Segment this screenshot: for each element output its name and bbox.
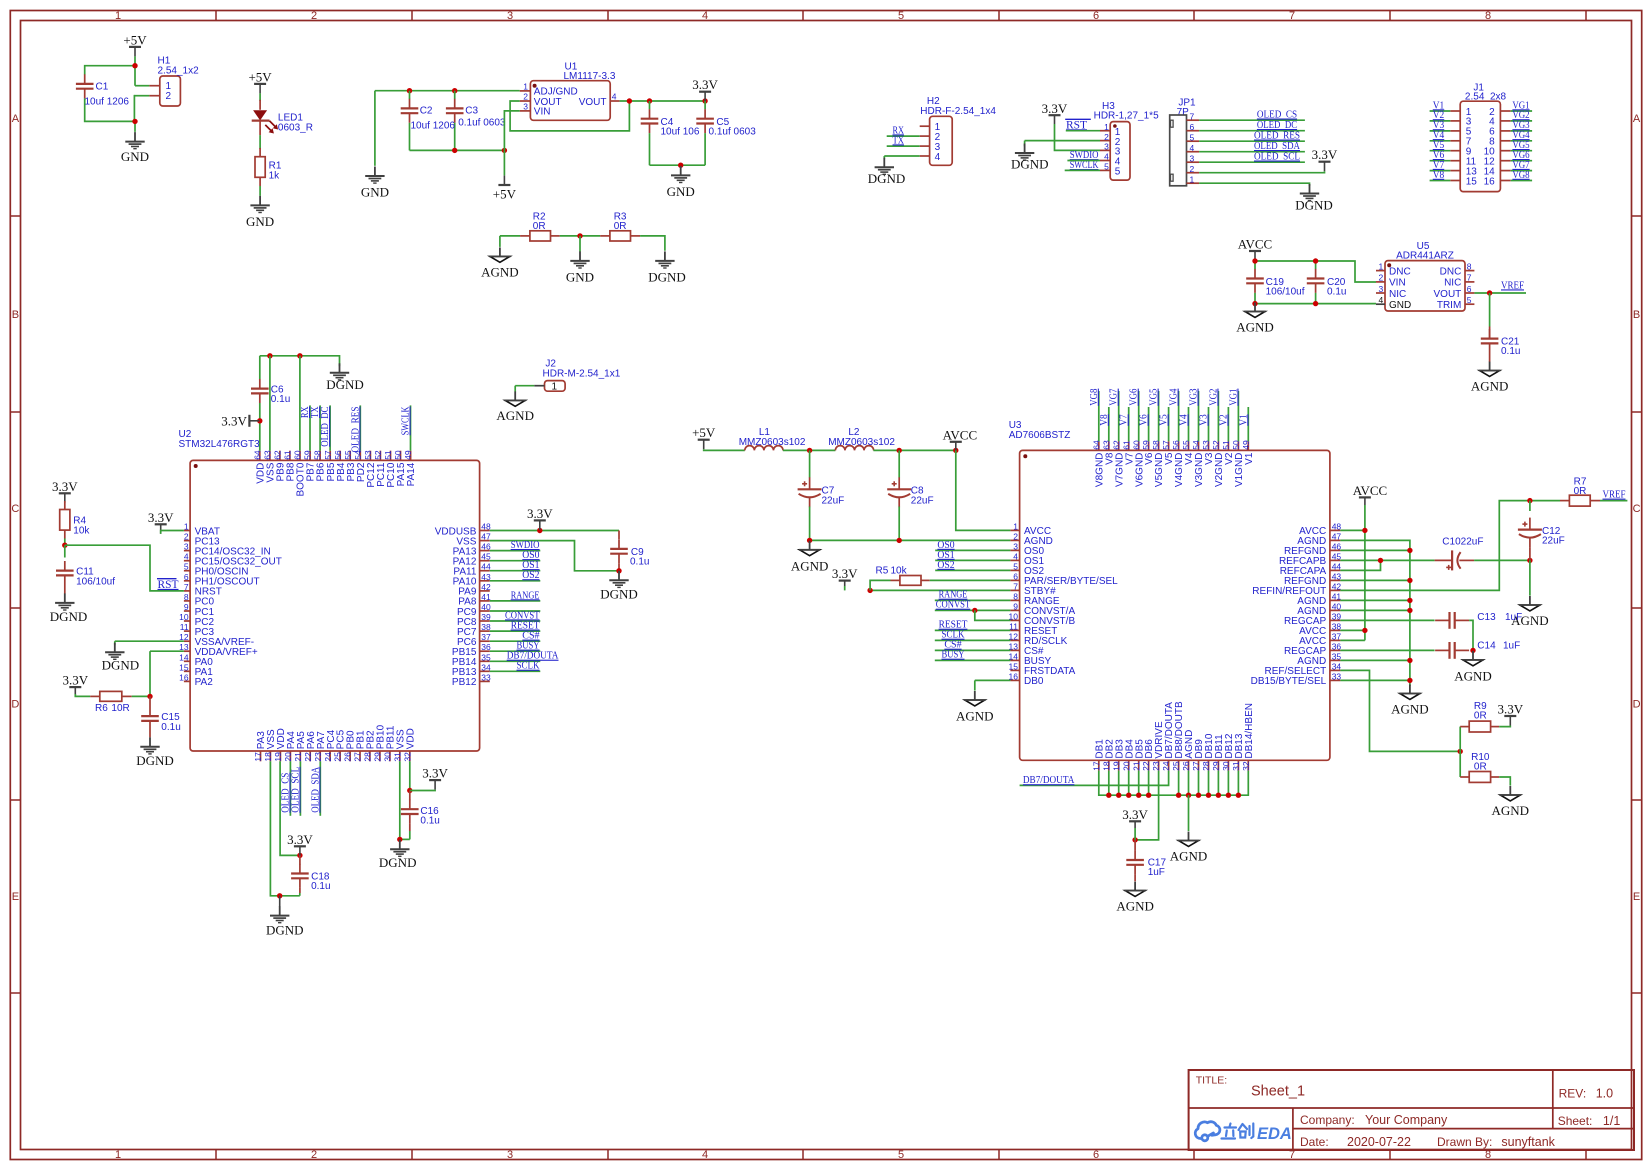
svg-text:DGND: DGND — [102, 658, 140, 673]
svg-text:10uf 1206: 10uf 1206 — [411, 120, 456, 131]
svg-text:R6: R6 — [95, 703, 108, 714]
svg-text:R5: R5 — [876, 565, 889, 576]
svg-text:C2: C2 — [420, 106, 433, 117]
svg-text:1: 1 — [523, 81, 528, 91]
svg-text:3: 3 — [1190, 153, 1195, 163]
svg-text:NIC: NIC — [1389, 289, 1406, 300]
svg-text:0.1u: 0.1u — [271, 394, 290, 405]
svg-text:VIN: VIN — [534, 107, 551, 118]
svg-text:50: 50 — [393, 450, 403, 460]
svg-text:19: 19 — [273, 752, 283, 762]
svg-text:E: E — [1633, 891, 1640, 903]
svg-text:TX: TX — [893, 134, 905, 146]
svg-text:V8: V8 — [1433, 169, 1445, 181]
svg-text:2: 2 — [184, 532, 189, 542]
svg-text:46: 46 — [481, 542, 491, 552]
svg-text:44: 44 — [1332, 561, 1342, 571]
svg-text:0.1u: 0.1u — [161, 722, 180, 733]
svg-text:25: 25 — [1171, 761, 1181, 771]
svg-text:+5V: +5V — [123, 32, 147, 47]
svg-text:STM32L476RGT3: STM32L476RGT3 — [179, 439, 261, 450]
svg-text:DGND: DGND — [648, 269, 686, 284]
svg-text:22uF: 22uF — [1542, 535, 1565, 546]
svg-text:1: 1 — [115, 10, 121, 22]
svg-text:1: 1 — [1013, 521, 1018, 531]
svg-text:33: 33 — [481, 672, 491, 682]
svg-text:GND: GND — [667, 184, 695, 199]
svg-text:3.3V: 3.3V — [1312, 147, 1338, 162]
svg-text:49: 49 — [1241, 440, 1251, 450]
svg-text:10k: 10k — [891, 565, 908, 576]
svg-text:B: B — [12, 309, 19, 321]
svg-text:32: 32 — [1241, 761, 1251, 771]
svg-text:3.3V: 3.3V — [148, 510, 174, 525]
svg-text:52: 52 — [1211, 440, 1221, 450]
svg-text:3.3V: 3.3V — [422, 766, 448, 781]
svg-text:3: 3 — [1104, 142, 1109, 152]
svg-text:61: 61 — [1121, 440, 1131, 450]
svg-text:DB15/BYTE/SEL: DB15/BYTE/SEL — [1251, 676, 1327, 687]
svg-text:3.3V: 3.3V — [1497, 702, 1523, 717]
svg-text:PA14: PA14 — [406, 462, 417, 486]
svg-text:3: 3 — [523, 101, 528, 111]
svg-text:106/10uf: 106/10uf — [76, 577, 115, 588]
svg-text:58: 58 — [313, 450, 323, 460]
svg-text:10: 10 — [179, 612, 189, 622]
svg-text:31: 31 — [1231, 761, 1241, 771]
svg-text:CONVST: CONVST — [936, 599, 971, 611]
svg-text:57: 57 — [1161, 440, 1171, 450]
svg-text:41: 41 — [481, 592, 491, 602]
svg-text:2: 2 — [311, 10, 317, 22]
svg-text:Company:: Company: — [1300, 1113, 1355, 1127]
svg-text:43: 43 — [481, 572, 491, 582]
svg-text:2: 2 — [523, 92, 528, 102]
svg-text:2: 2 — [166, 91, 172, 102]
svg-text:VG3: VG3 — [1188, 388, 1200, 406]
svg-text:OLED_RES: OLED_RES — [349, 407, 361, 453]
svg-text:C1022uF: C1022uF — [1442, 537, 1483, 548]
svg-text:B: B — [1633, 309, 1640, 321]
svg-text:35: 35 — [1332, 651, 1342, 661]
svg-text:Sheet:: Sheet: — [1558, 1114, 1593, 1128]
svg-text:39: 39 — [1332, 611, 1342, 621]
svg-text:Your Company: Your Company — [1365, 1113, 1448, 1127]
svg-text:DGND: DGND — [1295, 198, 1333, 213]
svg-text:V1: V1 — [1244, 452, 1255, 465]
svg-text:Sheet_1: Sheet_1 — [1251, 1083, 1305, 1099]
svg-text:21: 21 — [1131, 761, 1141, 771]
svg-text:GND: GND — [566, 269, 594, 284]
svg-text:51: 51 — [383, 450, 393, 460]
svg-text:DGND: DGND — [266, 923, 304, 938]
svg-text:C: C — [1633, 503, 1641, 515]
svg-text:60: 60 — [293, 450, 303, 460]
svg-text:56: 56 — [1171, 440, 1181, 450]
svg-text:22: 22 — [1141, 761, 1151, 771]
svg-text:TRIM: TRIM — [1437, 300, 1461, 311]
svg-text:VIN: VIN — [1389, 278, 1406, 289]
svg-text:1: 1 — [1378, 261, 1383, 271]
svg-text:VG7: VG7 — [1108, 388, 1120, 406]
svg-text:AVCC: AVCC — [1353, 483, 1387, 498]
svg-text:31: 31 — [392, 752, 402, 762]
svg-text:OLED_SDA: OLED_SDA — [309, 767, 321, 813]
svg-text:V7: V7 — [1118, 414, 1130, 426]
svg-text:RANGE: RANGE — [511, 589, 540, 601]
svg-text:4: 4 — [935, 152, 941, 163]
svg-text:46: 46 — [1332, 541, 1342, 551]
svg-text:3.3V: 3.3V — [287, 832, 313, 847]
svg-text:8: 8 — [184, 592, 189, 602]
svg-text:HDR-F-2.54_1x4: HDR-F-2.54_1x4 — [920, 106, 996, 117]
svg-text:HDR-M-2.54_1x1: HDR-M-2.54_1x1 — [543, 368, 621, 379]
svg-text:5: 5 — [898, 10, 904, 22]
svg-text:1uF: 1uF — [1148, 867, 1165, 878]
svg-text:16: 16 — [1484, 176, 1496, 187]
svg-text:D: D — [11, 699, 19, 711]
svg-text:VG5: VG5 — [1148, 388, 1160, 406]
svg-text:27: 27 — [1191, 761, 1201, 771]
svg-text:3.3V: 3.3V — [832, 566, 858, 581]
svg-text:AGND: AGND — [1116, 899, 1154, 914]
svg-text:45: 45 — [1332, 551, 1342, 561]
svg-text:51: 51 — [1221, 440, 1231, 450]
svg-text:17: 17 — [253, 752, 263, 762]
svg-text:10uf 1206: 10uf 1206 — [85, 97, 130, 108]
svg-text:7: 7 — [1289, 10, 1295, 22]
svg-text:37: 37 — [481, 632, 491, 642]
svg-text:27: 27 — [353, 752, 363, 762]
svg-text:DGND: DGND — [50, 609, 88, 624]
svg-text:26: 26 — [1181, 761, 1191, 771]
svg-text:49: 49 — [403, 450, 413, 460]
svg-text:50: 50 — [1231, 440, 1241, 450]
svg-text:1: 1 — [184, 522, 189, 532]
svg-text:0R: 0R — [533, 221, 546, 232]
svg-text:3.3V: 3.3V — [692, 77, 718, 92]
svg-text:20: 20 — [283, 752, 293, 762]
svg-text:3.3V: 3.3V — [52, 479, 78, 494]
svg-text:63: 63 — [263, 450, 273, 460]
svg-text:4: 4 — [1013, 551, 1018, 561]
svg-text:OS2: OS2 — [937, 559, 954, 571]
svg-text:34: 34 — [481, 662, 491, 672]
svg-text:AD7606BSTZ: AD7606BSTZ — [1009, 430, 1071, 441]
svg-text:3: 3 — [1013, 541, 1018, 551]
svg-text:DNC: DNC — [1440, 266, 1462, 277]
svg-text:V6: V6 — [1138, 414, 1150, 426]
svg-text:GND: GND — [121, 149, 149, 164]
svg-text:D: D — [1633, 699, 1641, 711]
svg-text:AGND: AGND — [1170, 849, 1208, 864]
svg-text:0.1u: 0.1u — [420, 816, 439, 827]
svg-text:23: 23 — [1151, 761, 1161, 771]
svg-text:PB12: PB12 — [452, 677, 477, 688]
svg-text:7: 7 — [184, 582, 189, 592]
svg-text:39: 39 — [481, 612, 491, 622]
svg-text:5: 5 — [184, 562, 189, 572]
svg-text:DB0: DB0 — [1024, 676, 1044, 687]
svg-text:3.3V: 3.3V — [1122, 807, 1148, 822]
svg-text:0.1u: 0.1u — [1327, 286, 1346, 297]
svg-text:30: 30 — [383, 752, 393, 762]
svg-text:48: 48 — [481, 522, 491, 532]
svg-text:0.1uf 0603: 0.1uf 0603 — [709, 126, 757, 137]
svg-text:64: 64 — [1091, 440, 1101, 450]
svg-text:VOUT: VOUT — [1434, 289, 1462, 300]
svg-text:36: 36 — [481, 642, 491, 652]
svg-text:17: 17 — [1091, 761, 1101, 771]
svg-text:EDA: EDA — [1257, 1125, 1292, 1143]
svg-text:14: 14 — [179, 652, 189, 662]
svg-text:9: 9 — [1013, 601, 1018, 611]
svg-text:MMZ0603s102: MMZ0603s102 — [828, 437, 895, 448]
svg-text:38: 38 — [481, 622, 491, 632]
svg-text:2020-07-22: 2020-07-22 — [1347, 1135, 1411, 1149]
svg-text:33: 33 — [1332, 671, 1342, 681]
svg-text:54: 54 — [1191, 440, 1201, 450]
svg-text:0603_R: 0603_R — [278, 123, 313, 134]
svg-text:5: 5 — [1115, 167, 1121, 178]
svg-text:5: 5 — [1467, 295, 1472, 305]
svg-text:ADR441ARZ: ADR441ARZ — [1396, 250, 1454, 261]
svg-text:15: 15 — [1009, 661, 1019, 671]
svg-text:22: 22 — [303, 752, 313, 762]
svg-text:AVCC: AVCC — [1238, 237, 1272, 252]
svg-text:DNC: DNC — [1389, 266, 1411, 277]
svg-text:VREF: VREF — [1501, 279, 1524, 291]
svg-text:15: 15 — [1466, 176, 1478, 187]
svg-text:30: 30 — [1221, 761, 1231, 771]
svg-text:DGND: DGND — [1011, 157, 1049, 172]
svg-text:5: 5 — [1190, 132, 1195, 142]
svg-text:29: 29 — [1211, 761, 1221, 771]
svg-text:4: 4 — [1190, 143, 1195, 153]
svg-text:7: 7 — [1467, 273, 1472, 283]
svg-text:3: 3 — [507, 1149, 513, 1161]
svg-text:3.3V: 3.3V — [62, 673, 88, 688]
svg-text:AGND: AGND — [481, 264, 519, 279]
svg-text:+5V: +5V — [248, 69, 272, 84]
svg-text:5: 5 — [1013, 561, 1018, 571]
svg-text:8: 8 — [1013, 591, 1018, 601]
svg-text:LM1117-3.3: LM1117-3.3 — [564, 71, 616, 82]
svg-text:3.3V: 3.3V — [221, 413, 247, 428]
svg-text:VG8: VG8 — [1512, 169, 1530, 181]
svg-text:0R: 0R — [1474, 711, 1487, 722]
svg-text:2: 2 — [1378, 273, 1383, 283]
svg-text:DGND: DGND — [600, 586, 638, 601]
svg-text:RST: RST — [1066, 119, 1087, 131]
svg-text:34: 34 — [1332, 661, 1342, 671]
svg-text:VG2: VG2 — [1207, 389, 1219, 406]
svg-text:C: C — [11, 503, 19, 515]
svg-text:AGND: AGND — [1454, 668, 1492, 683]
svg-text:V1: V1 — [1237, 414, 1249, 426]
svg-text:0R: 0R — [1474, 761, 1487, 772]
svg-text:9: 9 — [184, 602, 189, 612]
svg-text:63: 63 — [1101, 440, 1111, 450]
svg-text:GND: GND — [361, 185, 389, 200]
svg-text:BUSY: BUSY — [942, 649, 965, 661]
svg-text:NIC: NIC — [1444, 278, 1461, 289]
svg-text:OLED_SCL: OLED_SCL — [289, 767, 301, 813]
svg-text:15: 15 — [179, 662, 189, 672]
svg-text:E: E — [12, 891, 19, 903]
svg-text:SCLK: SCLK — [517, 660, 540, 672]
svg-text:26: 26 — [343, 752, 353, 762]
svg-text:V5: V5 — [1158, 414, 1170, 426]
svg-text:24: 24 — [323, 752, 333, 762]
svg-text:OLED_DC: OLED_DC — [319, 407, 331, 447]
svg-text:TITLE:: TITLE: — [1196, 1074, 1228, 1086]
svg-text:38: 38 — [1332, 621, 1342, 631]
svg-text:1uF: 1uF — [1505, 612, 1522, 623]
svg-text:Date:: Date: — [1300, 1135, 1329, 1149]
svg-text:58: 58 — [1151, 440, 1161, 450]
svg-text:0.1uf 0603: 0.1uf 0603 — [458, 117, 506, 128]
svg-text:AGND: AGND — [1391, 702, 1429, 717]
svg-text:55: 55 — [1181, 440, 1191, 450]
svg-text:5: 5 — [1104, 162, 1109, 172]
svg-text:1k: 1k — [269, 171, 281, 182]
svg-text:4: 4 — [702, 10, 708, 22]
svg-text:VG1: VG1 — [1227, 389, 1239, 406]
svg-text:AGND: AGND — [956, 709, 994, 724]
svg-text:4: 4 — [702, 1149, 708, 1161]
svg-text:20: 20 — [1121, 761, 1131, 771]
svg-text:3: 3 — [184, 542, 189, 552]
svg-text:10k: 10k — [73, 525, 90, 536]
svg-text:47: 47 — [1332, 531, 1342, 541]
svg-text:SWCLK: SWCLK — [400, 406, 412, 435]
svg-text:64: 64 — [252, 450, 262, 460]
svg-text:7: 7 — [1013, 581, 1018, 591]
svg-text:OLED_SCL: OLED_SCL — [1254, 151, 1300, 163]
svg-text:0R: 0R — [614, 221, 627, 232]
svg-text:8: 8 — [1485, 10, 1491, 22]
svg-text:1: 1 — [1190, 174, 1195, 184]
svg-text:43: 43 — [1332, 571, 1342, 581]
svg-text:DGND: DGND — [868, 171, 906, 186]
svg-text:Drawn By:: Drawn By: — [1437, 1135, 1492, 1149]
svg-text:37: 37 — [1332, 631, 1342, 641]
svg-text:V4: V4 — [1178, 414, 1190, 426]
svg-text:6: 6 — [1093, 1149, 1099, 1161]
svg-text:28: 28 — [363, 752, 373, 762]
svg-text:7: 7 — [1190, 111, 1195, 121]
svg-text:C3: C3 — [465, 106, 478, 117]
svg-text:AGND: AGND — [1236, 320, 1274, 335]
svg-text:3: 3 — [1378, 284, 1383, 294]
svg-text:V8: V8 — [1098, 414, 1110, 426]
svg-text:+5V: +5V — [493, 187, 517, 202]
svg-text:59: 59 — [1141, 440, 1151, 450]
svg-text:C13: C13 — [1477, 612, 1496, 623]
svg-text:4: 4 — [1378, 295, 1383, 305]
svg-text:42: 42 — [1332, 581, 1342, 591]
svg-text:25: 25 — [333, 752, 343, 762]
svg-text:24: 24 — [1161, 761, 1171, 771]
svg-text:1: 1 — [1104, 122, 1109, 132]
svg-text:sunyftank: sunyftank — [1501, 1135, 1555, 1149]
svg-text:11: 11 — [1009, 621, 1018, 631]
svg-text:DGND: DGND — [326, 377, 364, 392]
svg-text:DB7/DOUTA: DB7/DOUTA — [1023, 774, 1075, 786]
svg-text:VG6: VG6 — [1128, 388, 1140, 406]
svg-text:22uF: 22uF — [822, 495, 845, 506]
svg-text:2: 2 — [1104, 132, 1109, 142]
svg-text:16: 16 — [179, 672, 189, 682]
svg-text:42: 42 — [481, 582, 491, 592]
svg-text:DGND: DGND — [379, 855, 417, 870]
svg-text:3.3V: 3.3V — [1042, 101, 1068, 116]
svg-text:18: 18 — [263, 752, 273, 762]
svg-text:2.54_1x2: 2.54_1x2 — [158, 66, 200, 77]
svg-text:AGND: AGND — [1471, 379, 1509, 394]
svg-text:59: 59 — [303, 450, 313, 460]
svg-text:36: 36 — [1332, 641, 1342, 651]
svg-text:19: 19 — [1111, 761, 1121, 771]
svg-text:A: A — [1633, 113, 1641, 125]
svg-text:DB14/HBEN: DB14/HBEN — [1244, 703, 1255, 759]
svg-text:GND: GND — [1389, 300, 1411, 311]
svg-text:0R: 0R — [1574, 486, 1587, 497]
svg-text:32: 32 — [402, 752, 412, 762]
svg-text:18: 18 — [1101, 761, 1111, 771]
svg-text:4: 4 — [184, 552, 189, 562]
svg-text:29: 29 — [373, 752, 383, 762]
svg-text:AGND: AGND — [496, 408, 534, 423]
svg-text:40: 40 — [481, 602, 491, 612]
svg-text:0.1u: 0.1u — [311, 881, 330, 892]
svg-text:53: 53 — [363, 450, 373, 460]
svg-text:2: 2 — [1013, 531, 1018, 541]
svg-text:RST: RST — [158, 579, 179, 591]
svg-text:8: 8 — [1467, 261, 1472, 271]
svg-text:AGND: AGND — [1492, 803, 1530, 818]
svg-text:VOUT: VOUT — [579, 97, 607, 108]
svg-text:4: 4 — [612, 91, 617, 101]
svg-text:MMZ0603s102: MMZ0603s102 — [739, 437, 806, 448]
svg-text:44: 44 — [481, 562, 491, 572]
svg-text:48: 48 — [1332, 521, 1342, 531]
svg-text:GND: GND — [246, 214, 274, 229]
svg-text:22uF: 22uF — [911, 495, 934, 506]
svg-text:6: 6 — [1190, 122, 1195, 132]
svg-text:6: 6 — [184, 572, 189, 582]
svg-text:62: 62 — [273, 450, 283, 460]
svg-text:61: 61 — [283, 450, 293, 460]
svg-text:6: 6 — [1467, 284, 1472, 294]
svg-text:6: 6 — [1093, 10, 1099, 22]
svg-text:62: 62 — [1111, 440, 1121, 450]
svg-text:2: 2 — [1190, 164, 1195, 174]
svg-text:VDD: VDD — [405, 728, 416, 749]
svg-text:3.3V: 3.3V — [527, 506, 553, 521]
svg-text:40: 40 — [1332, 601, 1342, 611]
svg-text:C1: C1 — [96, 82, 109, 93]
svg-text:11: 11 — [180, 622, 189, 632]
svg-text:REV:: REV: — [1559, 1086, 1587, 1100]
svg-text:1: 1 — [115, 1149, 121, 1161]
svg-text:DGND: DGND — [136, 753, 174, 768]
svg-text:AVCC: AVCC — [943, 427, 977, 442]
svg-text:AGND: AGND — [791, 558, 829, 573]
svg-text:5: 5 — [898, 1149, 904, 1161]
svg-text:56: 56 — [333, 450, 343, 460]
